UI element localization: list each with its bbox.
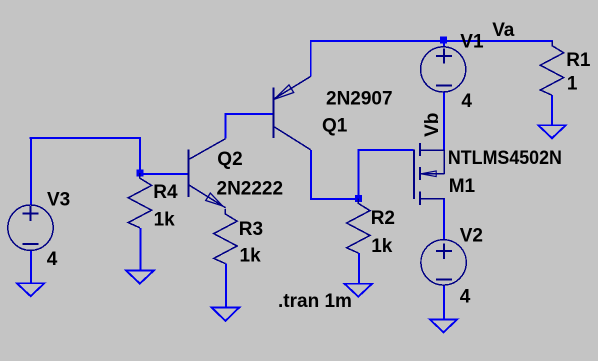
ground under R2	[345, 284, 373, 297]
resistor R2	[347, 198, 370, 253]
svg-text:.tran 1m: .tran 1m	[278, 291, 352, 312]
label R2	[371, 208, 395, 229]
wire Q2 collector vertical	[225, 113, 227, 139]
MOSFET M1 (NMOS)	[414, 143, 445, 205]
net label Vb (rotated)	[422, 113, 443, 137]
node Va junction on top rail	[440, 36, 447, 43]
wire R2 bottom lead	[358, 253, 360, 284]
svg-text:2N2907: 2N2907	[326, 89, 393, 110]
svg-text:NTLMS4502N: NTLMS4502N	[448, 148, 562, 169]
svg-text:R3: R3	[239, 219, 263, 240]
wire V3 top vertical	[30, 137, 32, 205]
wire gate horizontal	[357, 149, 413, 151]
wire V1 bottom to M1 drain	[443, 92, 445, 151]
transistor Q2 (NPN)	[188, 139, 225, 208]
svg-text:Va: Va	[492, 20, 515, 41]
value 2N2222 of Q2	[217, 178, 284, 199]
wire Q1 collector vertical	[310, 150, 312, 200]
node B junction at R2 top	[355, 195, 362, 202]
directive .tran 1m	[278, 291, 352, 312]
label V3	[47, 189, 70, 210]
value 4 of V1	[461, 91, 472, 112]
ground under V2	[430, 319, 458, 332]
svg-text:1k: 1k	[154, 210, 176, 231]
label M1	[449, 176, 476, 197]
svg-text:V2: V2	[460, 225, 483, 246]
transistor Q1 (PNP)	[274, 76, 311, 149]
wire M1 source to V2	[443, 198, 445, 240]
svg-text:R4: R4	[153, 182, 178, 203]
wire node B up (net Vb)	[357, 149, 359, 199]
wire Q2 collector to Q1 base	[225, 113, 274, 115]
ground under R1	[538, 125, 566, 138]
resistor R4	[128, 173, 151, 228]
value 2N2907 of Q1	[326, 89, 393, 110]
svg-text:4: 4	[461, 91, 472, 112]
value 4 of V2	[460, 287, 471, 308]
wire down to node A	[139, 137, 141, 173]
wire R3 bottom lead	[225, 264, 227, 308]
label V1	[460, 32, 484, 53]
label Q2	[217, 149, 242, 170]
label R3	[239, 219, 263, 240]
ground under V3	[17, 283, 45, 296]
wire V1 top stub	[443, 40, 445, 47]
voltage source V1	[421, 47, 466, 92]
wire V3 bottom to ground	[30, 250, 32, 283]
svg-text:4: 4	[47, 249, 58, 270]
label R1	[566, 50, 591, 71]
svg-text:R2: R2	[371, 208, 395, 229]
value 1 of R1	[567, 74, 578, 95]
net label Va	[492, 20, 515, 41]
node A junction	[136, 170, 143, 177]
svg-text:Q2: Q2	[217, 149, 242, 170]
resistor R1	[540, 41, 563, 95]
svg-text:4: 4	[460, 287, 471, 308]
wire top rail	[310, 40, 553, 42]
value 1k of R3	[240, 245, 262, 266]
svg-text:2N2222: 2N2222	[217, 178, 284, 199]
wire R1 bottom lead	[551, 95, 553, 125]
svg-text:V1: V1	[460, 32, 484, 53]
label R4	[153, 182, 178, 203]
voltage source V3	[8, 205, 53, 250]
svg-text:R1: R1	[566, 50, 591, 71]
resistor R3	[214, 209, 237, 264]
label Q1	[322, 116, 348, 137]
ground under R3	[212, 308, 240, 321]
value 1k of R2	[371, 236, 393, 257]
svg-text:1: 1	[567, 74, 578, 95]
wire R4 bottom lead	[139, 228, 141, 271]
label NTLMS4502N of M1	[448, 148, 562, 169]
ground under R4	[126, 271, 154, 284]
svg-text:Q1: Q1	[322, 116, 348, 137]
wire Q1 collector to node B	[310, 198, 358, 200]
value 1k of R4	[154, 210, 176, 231]
wire Q1 emitter vertical	[310, 40, 312, 76]
value 4 of V3	[47, 249, 58, 270]
svg-text:Vb: Vb	[422, 113, 443, 137]
wire Q2 base	[140, 173, 189, 175]
wire top-left horizontal	[30, 137, 141, 139]
label V2	[460, 225, 483, 246]
svg-text:1k: 1k	[240, 245, 262, 266]
svg-text:M1: M1	[449, 176, 476, 197]
svg-text:1k: 1k	[371, 236, 393, 257]
svg-text:V3: V3	[47, 189, 70, 210]
voltage source V2	[421, 240, 466, 285]
wire V2 bottom to ground	[443, 285, 445, 319]
